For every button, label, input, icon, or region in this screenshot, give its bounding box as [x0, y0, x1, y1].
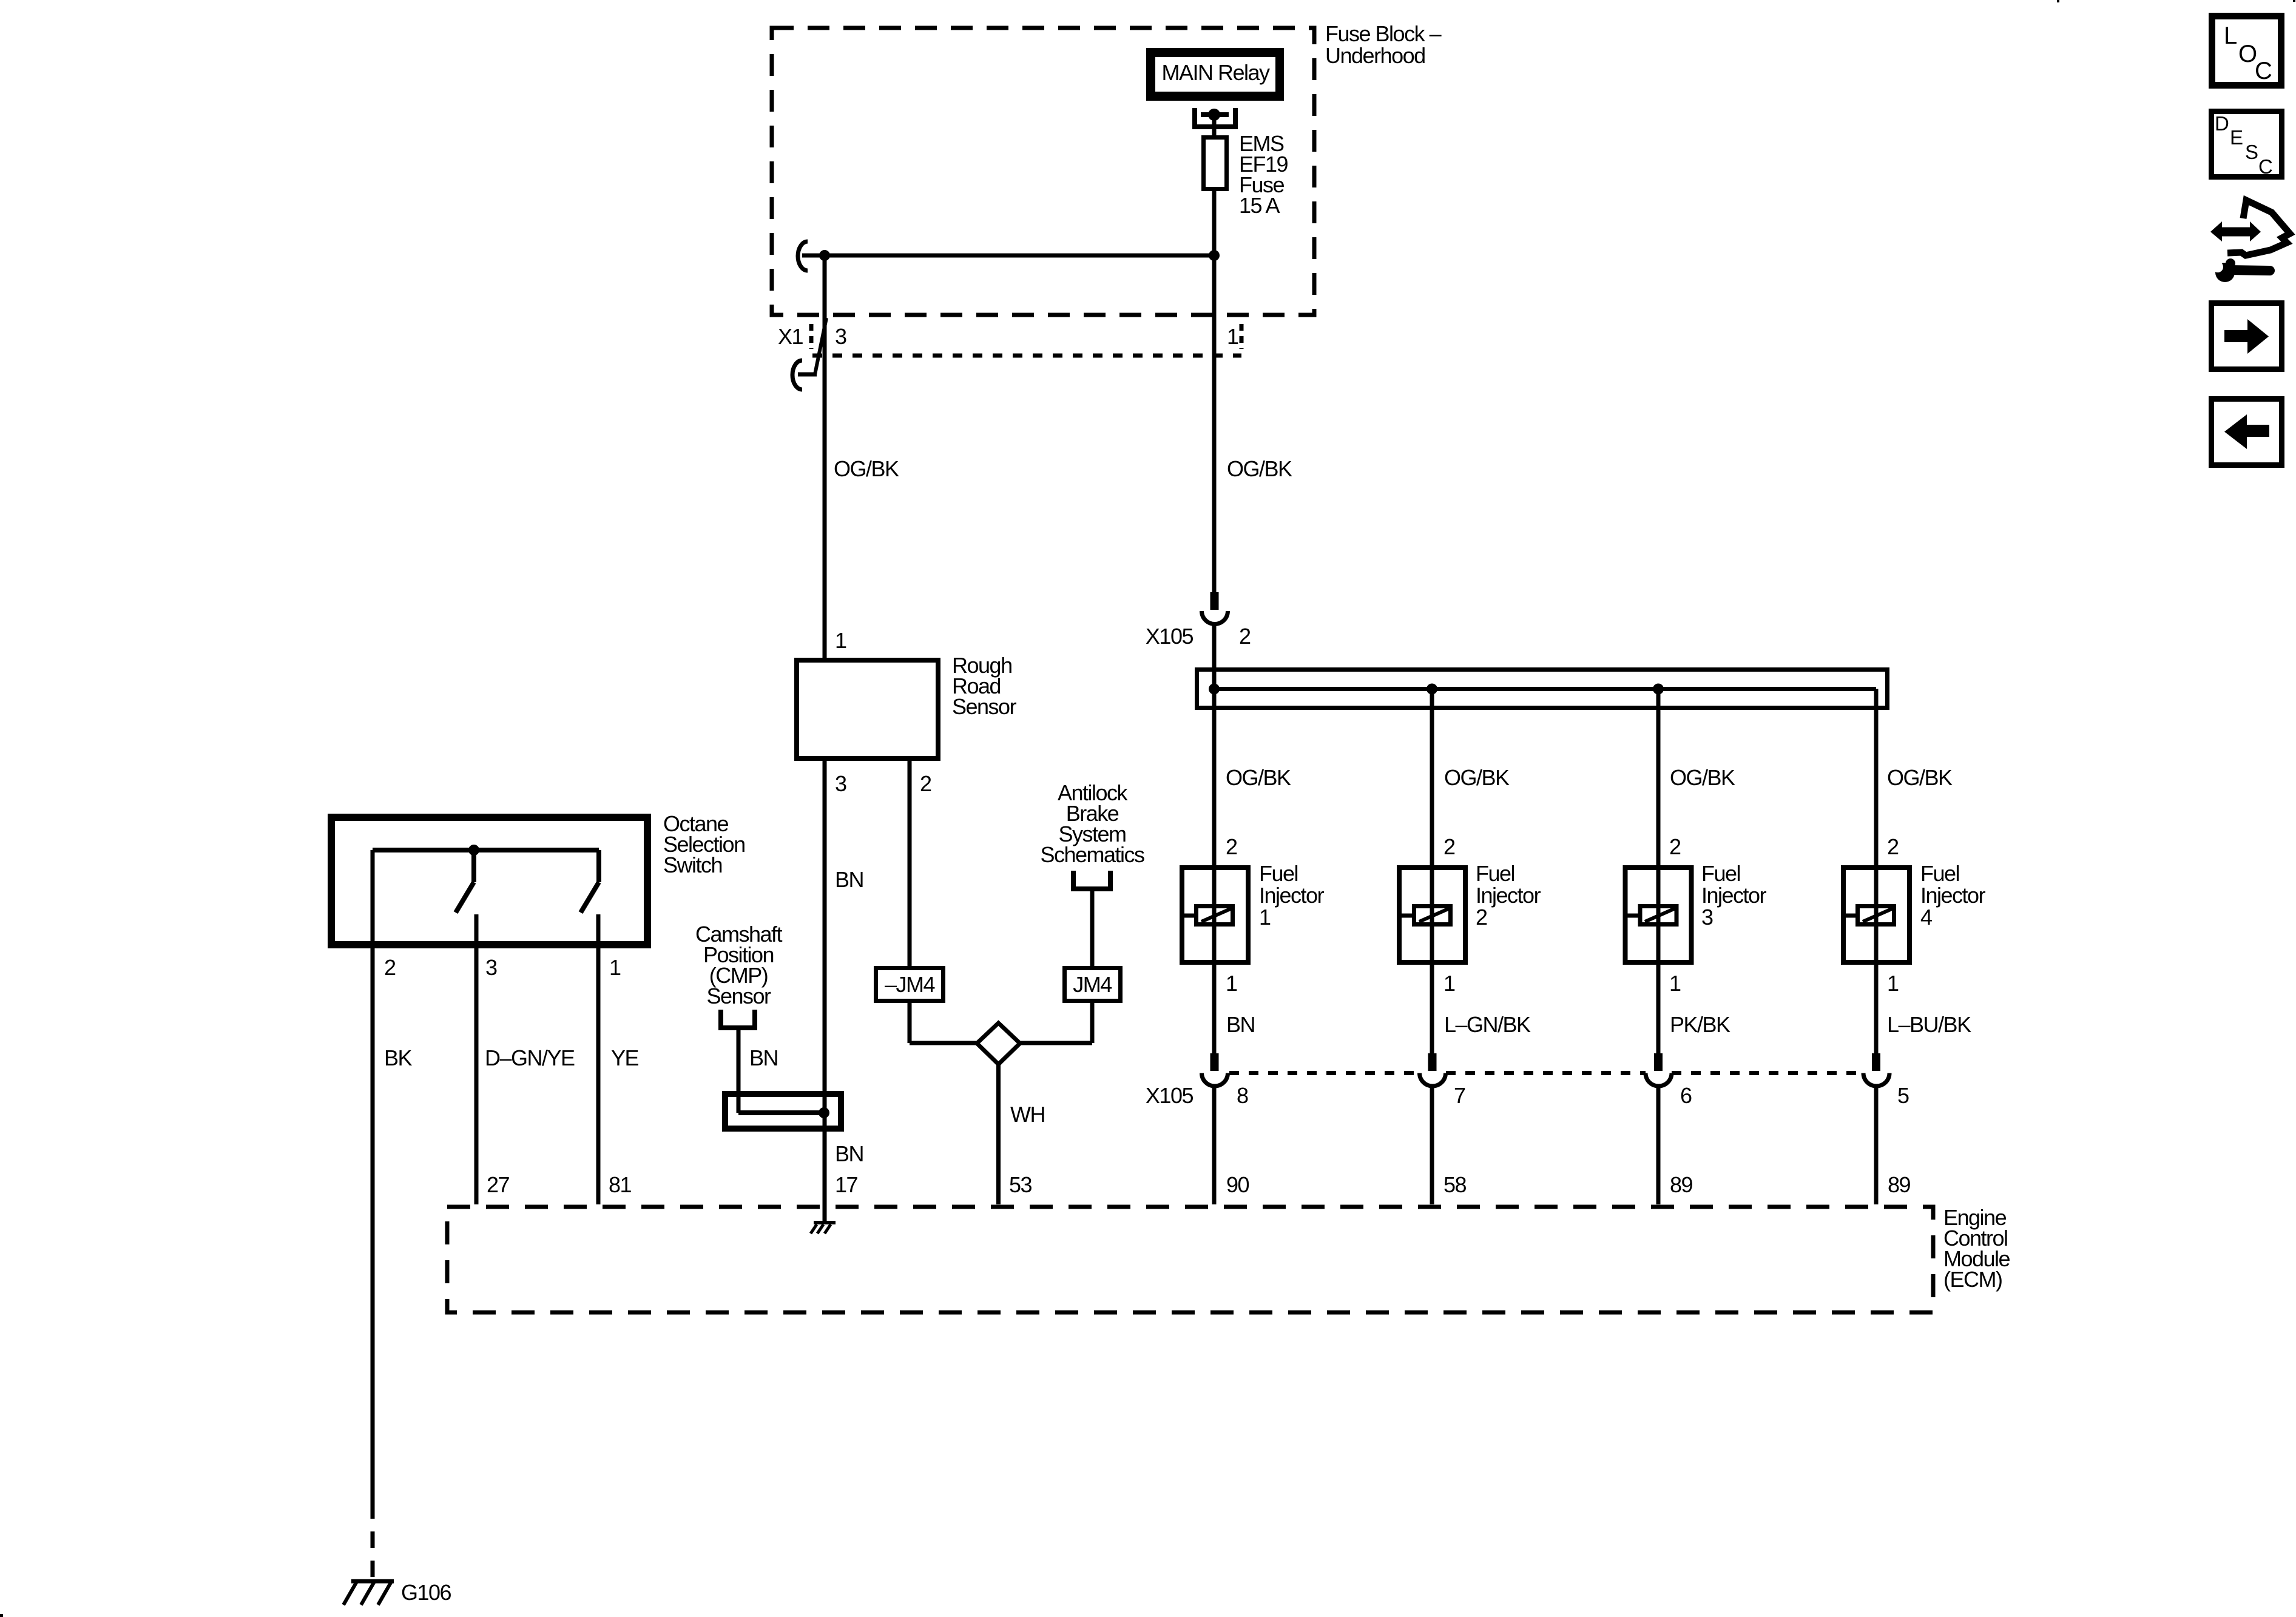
svg-text:1: 1: [835, 628, 846, 653]
svg-text:C: C: [2258, 155, 2272, 178]
wire rough road pin3 to ECM 17: [823, 758, 827, 1204]
svg-text:2: 2: [384, 955, 396, 980]
X1 pin1 label tick: [1240, 324, 1244, 349]
svg-text:Fuel: Fuel: [1476, 861, 1514, 886]
ECM dashed box: [447, 1207, 1933, 1312]
svg-text:6: 6: [1680, 1083, 1692, 1108]
svg-text:OG/BK: OG/BK: [1670, 765, 1735, 790]
wire -JM4 to diamond: [910, 1001, 978, 1043]
fuse label: [1239, 131, 1288, 218]
svg-text:PK/BK: PK/BK: [1670, 1012, 1730, 1037]
svg-text:Injector: Injector: [1701, 883, 1767, 908]
wire JM4 to diamond: [1019, 1001, 1092, 1043]
wire tap2: [1430, 689, 1434, 1054]
splice JM4 box: [1065, 968, 1121, 1001]
bus tap dot 1: [1209, 684, 1220, 695]
wire X1 pin1 column down to X105: [1212, 255, 1217, 592]
wire rough road pin2 to -JM4: [908, 758, 912, 968]
splice dot: [819, 1107, 829, 1118]
svg-text:G106: G106: [401, 1580, 451, 1605]
octane pin 3 wire (D-GN/YE): [474, 914, 479, 1204]
octane junction dot: [468, 845, 479, 856]
svg-text:81: 81: [609, 1172, 632, 1197]
svg-text:OG/BK: OG/BK: [1887, 765, 1953, 790]
svg-text:Schematics: Schematics: [1040, 842, 1144, 867]
connector X105 pin 6: [1646, 1053, 1672, 1086]
svg-text:C: C: [2255, 58, 2272, 84]
octane switch blade pin1: [581, 882, 599, 913]
octane pin 1 wire (YE): [596, 914, 601, 1204]
fuel injector 2: [1399, 861, 1541, 962]
svg-text:17: 17: [835, 1172, 858, 1197]
icon adjust (double arrow + hand + wrench): [2206, 200, 2290, 282]
svg-text:Fuse Block –: Fuse Block –: [1325, 21, 1442, 46]
page crop mark top right: [2293, 0, 2295, 2]
svg-text:OG/BK: OG/BK: [1226, 765, 1291, 790]
splice box (CMP joint): [725, 1094, 841, 1129]
svg-text:D–GN/YE: D–GN/YE: [485, 1045, 575, 1070]
svg-text:(ECM): (ECM): [1943, 1267, 2002, 1292]
octane selection switch label: [663, 811, 745, 877]
fuel injector 4: [1843, 861, 1986, 962]
svg-text:89: 89: [1670, 1172, 1693, 1197]
svg-text:1: 1: [1887, 971, 1899, 996]
svg-text:Underhood: Underhood: [1325, 43, 1425, 68]
svg-text:2: 2: [1239, 624, 1251, 649]
svg-text:2: 2: [1226, 834, 1237, 859]
relay contact bracket: [1192, 108, 1238, 129]
svg-text:3: 3: [835, 324, 846, 349]
svg-text:OG/BK: OG/BK: [1227, 456, 1292, 481]
icon back arrow box: [2212, 399, 2282, 465]
page crop mark top center: [2057, 0, 2059, 2]
svg-text:L–BU/BK: L–BU/BK: [1887, 1012, 1971, 1037]
BK dashed wire to ground: [371, 1502, 375, 1579]
wire X105-7 to ECM pin 58: [1430, 1084, 1434, 1204]
fuse EMS EF19 15A: [1204, 138, 1227, 189]
svg-text:BN: BN: [835, 1141, 863, 1166]
connector X105 pin 2 (male tick + female cup): [1202, 592, 1228, 624]
wire X105-6 to ECM pin 89: [1656, 1084, 1661, 1204]
ECM label: [1943, 1205, 2010, 1292]
svg-text:BN: BN: [749, 1045, 778, 1070]
svg-text:8: 8: [1237, 1083, 1248, 1108]
ECM internal ground for pin 17: [811, 1204, 836, 1234]
bus tap dot 3: [1653, 684, 1664, 695]
octane switch branch pin3 vertical: [471, 850, 476, 882]
svg-text:1: 1: [1226, 971, 1237, 996]
X1 inline connector horizontal + hook: [798, 373, 817, 377]
relay K: MAIN Relay: [1146, 48, 1284, 101]
CMP BN wire down: [737, 1028, 741, 1113]
svg-text:JM4: JM4: [1073, 972, 1112, 997]
bus inner wire: [1214, 687, 1876, 691]
X105 row dashed connector line seg 6-5: [1672, 1071, 1863, 1075]
camshaft position sensor label: [695, 922, 783, 1008]
octane switch blade pin3: [456, 882, 474, 913]
X1 label tick: [809, 324, 814, 349]
svg-text:WH: WH: [1010, 1102, 1045, 1127]
page crop mark bottom left: [0, 1614, 3, 1617]
svg-text:OG/BK: OG/BK: [834, 456, 899, 481]
svg-text:E: E: [2230, 126, 2243, 149]
ground G106 symbol: [343, 1581, 394, 1605]
svg-text:2: 2: [1887, 834, 1899, 859]
svg-text:3: 3: [485, 955, 497, 980]
icon DESC box: [2212, 112, 2282, 178]
wire X1 pin3 column down to rough road sensor: [823, 255, 827, 660]
svg-text:BN: BN: [1226, 1012, 1255, 1037]
svg-text:Fuel: Fuel: [1701, 861, 1740, 886]
junction dot B (left): [819, 250, 830, 261]
svg-text:89: 89: [1888, 1172, 1911, 1197]
icon LOC box: [2212, 16, 2281, 86]
octane switch internal common wire: [373, 848, 599, 852]
X105 row dashed connector line seg 8-7: [1229, 1071, 1419, 1075]
X1 connector row: fuse block bottom is box edge; lower dashed line: [812, 354, 1241, 358]
svg-text:4: 4: [1920, 905, 1932, 930]
CMP connector bracket: [718, 1010, 757, 1028]
svg-text:–JM4: –JM4: [885, 972, 935, 997]
svg-text:53: 53: [1009, 1172, 1032, 1197]
octane switch branch pin1 vertical: [596, 850, 601, 882]
wire fuse down to junction A: [1212, 189, 1217, 255]
wire diamond to ECM 53 (WH): [996, 1064, 1001, 1204]
svg-text:7: 7: [1454, 1083, 1465, 1108]
wire ABS to JM4: [1090, 889, 1095, 968]
X105 row dashed connector line seg 7-6: [1446, 1071, 1646, 1075]
svg-text:BN: BN: [835, 867, 863, 892]
terminal hook at left end of horizontal wire: [798, 241, 808, 271]
svg-text:1: 1: [1669, 971, 1681, 996]
svg-text:X1: X1: [778, 324, 803, 349]
junction dot A (right): [1209, 250, 1220, 261]
svg-text:2: 2: [1669, 834, 1681, 859]
svg-text:Injector: Injector: [1476, 883, 1541, 908]
ABS connector bracket: [1071, 871, 1113, 889]
svg-text:1: 1: [609, 955, 621, 980]
svg-text:1: 1: [1227, 324, 1238, 349]
wire horizontal inside fuse block: [802, 254, 1214, 258]
svg-text:L: L: [2224, 22, 2237, 49]
wire relay dot to fuse: [1212, 115, 1217, 137]
svg-text:O: O: [2238, 41, 2257, 67]
svg-text:OG/BK: OG/BK: [1444, 765, 1510, 790]
rough road sensor box: [797, 660, 938, 758]
svg-text:L–GN/BK: L–GN/BK: [1444, 1012, 1531, 1037]
wire tap1 to injector 1 and down to connector: [1212, 689, 1217, 1054]
svg-text:BK: BK: [384, 1045, 413, 1070]
wire X105-8 to ECM pin 90: [1212, 1084, 1217, 1204]
splice diamond: [977, 1023, 1020, 1064]
antilock brake system schematics label: [1040, 780, 1144, 867]
svg-text:2: 2: [1443, 834, 1455, 859]
svg-text:Sensor: Sensor: [952, 694, 1017, 719]
splice bus bar rectangle: [1197, 670, 1888, 708]
svg-text:Fuel: Fuel: [1259, 861, 1298, 886]
svg-text:3: 3: [835, 771, 846, 796]
svg-text:Injector: Injector: [1259, 883, 1325, 908]
svg-text:15 A: 15 A: [1239, 193, 1280, 218]
svg-text:2: 2: [920, 771, 931, 796]
svg-text:MAIN Relay: MAIN Relay: [1161, 60, 1270, 85]
svg-text:S: S: [2245, 141, 2258, 163]
svg-text:Fuel: Fuel: [1920, 861, 1959, 886]
svg-text:27: 27: [487, 1172, 510, 1197]
bus tap dot 2: [1427, 684, 1437, 695]
wire tap3: [1656, 689, 1661, 1054]
octane selection switch box: [331, 817, 647, 945]
connector X105 pin 7: [1420, 1053, 1446, 1086]
svg-text:1: 1: [1259, 905, 1271, 930]
icon next arrow box: [2212, 303, 2282, 370]
svg-text:Sensor: Sensor: [706, 984, 771, 1008]
connector X105 pin 8: [1202, 1053, 1228, 1086]
svg-text:X105: X105: [1146, 1083, 1194, 1108]
svg-text:Switch: Switch: [663, 852, 722, 877]
svg-text:5: 5: [1897, 1083, 1909, 1108]
svg-text:90: 90: [1226, 1172, 1249, 1197]
splice inner wire: [738, 1110, 824, 1115]
svg-text:2: 2: [1476, 905, 1487, 930]
fuse block label: [1325, 21, 1442, 68]
wire tap4: [1874, 689, 1879, 1054]
connector X105 pin 5: [1863, 1053, 1889, 1086]
svg-text:1: 1: [1443, 971, 1455, 996]
svg-text:D: D: [2215, 112, 2229, 135]
svg-text:X105: X105: [1146, 624, 1194, 649]
svg-text:Injector: Injector: [1920, 883, 1986, 908]
svg-text:3: 3: [1701, 905, 1713, 930]
fuel injector 1: [1182, 861, 1325, 962]
octane pin 2 wire (BK): [371, 850, 375, 1502]
svg-text:58: 58: [1443, 1172, 1467, 1197]
fuse block - underhood dashed box: [772, 28, 1314, 315]
wire X105-5 to ECM pin 89: [1874, 1084, 1879, 1204]
svg-text:YE: YE: [611, 1045, 639, 1070]
X1 inline connector diagonal: [815, 318, 826, 374]
rough road sensor label: [952, 653, 1017, 719]
splice -JM4 box: [876, 968, 944, 1001]
junction dot relay pin: [1208, 109, 1220, 121]
wire X105-2 to bus: [1212, 623, 1217, 689]
fuel injector 3: [1625, 861, 1767, 962]
